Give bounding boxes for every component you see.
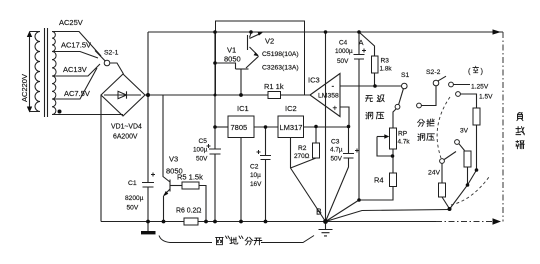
svg-text:AC13V: AC13V (63, 65, 87, 74)
svg-text:A: A (359, 38, 364, 47)
svg-text:6A200V: 6A200V (113, 134, 138, 141)
svg-text:8200µ: 8200µ (125, 195, 144, 202)
svg-text:-: - (332, 82, 335, 91)
svg-text:LM358: LM358 (318, 93, 339, 100)
svg-text:R2: R2 (298, 145, 307, 152)
svg-text:R3: R3 (381, 58, 390, 65)
svg-text:AC7.5V: AC7.5V (64, 89, 90, 98)
svg-text:1.8k: 1.8k (380, 66, 393, 73)
svg-text:S1: S1 (401, 72, 410, 79)
svg-text:1.5V: 1.5V (479, 94, 493, 101)
svg-text:AC25V: AC25V (59, 18, 83, 27)
svg-text:4.7µ: 4.7µ (330, 147, 343, 154)
svg-text:100µ: 100µ (193, 147, 208, 154)
svg-text:IC1: IC1 (237, 104, 249, 113)
svg-text:IC2: IC2 (285, 104, 297, 113)
svg-text:R6 0.2Ω: R6 0.2Ω (176, 208, 201, 215)
svg-text:C2: C2 (250, 164, 259, 171)
svg-text:VD1~VD4: VD1~VD4 (111, 124, 142, 131)
svg-text:C1: C1 (128, 180, 137, 187)
svg-text:V1: V1 (227, 46, 236, 55)
svg-text:50V: 50V (337, 58, 349, 65)
svg-text:R4: R4 (374, 176, 384, 185)
svg-text:16V: 16V (250, 181, 262, 188)
svg-text:C5: C5 (199, 138, 208, 145)
svg-text:AC17.5V: AC17.5V (61, 41, 91, 50)
svg-text:C5198(10A): C5198(10A) (262, 51, 299, 58)
svg-text:+: + (333, 104, 338, 113)
svg-text:AC220V: AC220V (20, 74, 29, 102)
svg-text:50V: 50V (127, 205, 139, 212)
svg-text:S2-1: S2-1 (104, 50, 119, 57)
svg-text:R1 1k: R1 1k (264, 82, 284, 91)
svg-text:7805: 7805 (231, 123, 248, 132)
svg-text:S2-2: S2-2 (426, 69, 441, 76)
svg-text:24V: 24V (428, 170, 441, 177)
svg-text:R5 1.5k: R5 1.5k (177, 173, 203, 182)
svg-text:4.7k: 4.7k (398, 139, 411, 146)
svg-text:C3263(13A): C3263(13A) (262, 65, 299, 72)
svg-text:C3: C3 (331, 139, 340, 146)
svg-text:IC3: IC3 (308, 76, 320, 85)
svg-text:LM317: LM317 (280, 123, 303, 132)
svg-text:B: B (316, 207, 322, 217)
svg-text:RP: RP (398, 131, 408, 138)
svg-text:3V: 3V (460, 128, 469, 135)
svg-text:270Ω: 270Ω (294, 153, 310, 160)
svg-text:1.25V: 1.25V (471, 84, 489, 91)
svg-text:V2: V2 (265, 37, 274, 46)
svg-text:50V: 50V (196, 156, 208, 163)
svg-text:C4: C4 (339, 40, 348, 47)
svg-text:10µ: 10µ (250, 172, 261, 179)
svg-text:8050: 8050 (224, 55, 241, 64)
svg-text:V3: V3 (169, 155, 178, 164)
svg-text:50V: 50V (331, 156, 343, 163)
svg-text:1000µ: 1000µ (335, 48, 353, 55)
